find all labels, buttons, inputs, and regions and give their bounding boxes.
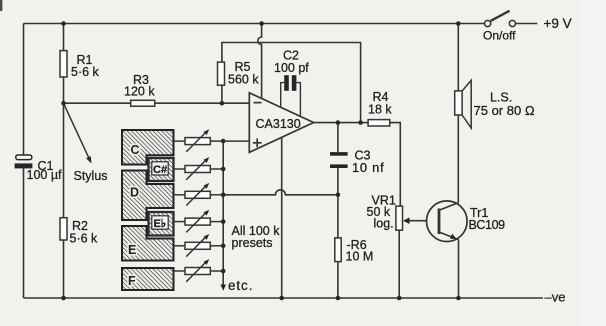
svg-text:75 or 80 Ω: 75 or 80 Ω [474,103,535,118]
stylus arrow [64,103,108,183]
wire emitter to bottom rail [458,240,460,298]
node C3 R6 bus junction [336,193,341,198]
svg-text:560 k: 560 k [228,72,259,86]
wire R1 bottom lead to node [63,77,65,103]
switch on/off [483,11,516,43]
svg-text:100 pf: 100 pf [274,61,309,75]
capacitor C1 [15,155,62,182]
svg-text:5·6 k: 5·6 k [71,65,100,79]
svg-text:E: E [128,243,136,257]
wire bottom negative rail [24,297,544,299]
wire preset bus to R6 junction with hop over V- line [223,190,338,195]
wire VR1 wiper to transistor base [408,220,440,222]
wire output line to R4 [314,122,369,124]
node output feedback junction [358,120,363,125]
wire R6 bottom lead [337,262,339,298]
svg-text:presets: presets [232,236,273,250]
svg-text:etc.: etc. [228,278,253,293]
svg-text:5·6 k: 5·6 k [70,231,99,245]
key C# [149,158,174,181]
wire R5 bottom lead [221,85,223,103]
svg-text:10 nf: 10 nf [352,160,384,175]
wire C3 top lead [337,123,339,153]
op-amp U1 CA3130 [249,93,313,153]
resistor R4 [368,90,392,126]
svg-text:100 µf: 100 µf [27,168,63,182]
transistor Q1 Tr1 BC109 [427,201,506,242]
preset P3 (D) [174,183,224,206]
node output C3 junction [336,120,341,125]
svg-text:Stylus: Stylus [74,169,108,183]
svg-text:C: C [131,143,140,157]
svg-text:log.: log. [374,217,394,231]
wire switch to +9V terminal [516,23,538,25]
svg-text:E♭: E♭ [154,218,167,230]
node +9V terminal label [544,16,572,31]
wire left rail upper (top rail to C1) [23,24,25,156]
key C [122,130,174,165]
resistor R3 [124,73,155,106]
key E [122,226,174,261]
wire collector rail (top rail through speaker to transistor) [457,24,459,203]
capacitor C3 [330,148,384,175]
svg-text:CA3130: CA3130 [256,117,301,131]
svg-text:D: D [130,186,139,200]
svg-text:F: F [128,274,136,288]
wire R5 top lead and feedback line down to output [222,43,361,123]
resistor R5 [218,60,260,86]
preset P4 (Eb) [174,210,224,233]
wire bus arrow etc. [220,224,280,293]
wire inverting input line (node through R3 to op-amp) [64,102,250,104]
node bottom rail junctions [61,296,461,301]
wire R4 right lead down to VR1 [390,123,401,207]
capacitor C2 [274,49,309,117]
svg-text:120 k: 120 k [124,84,155,98]
resistor R1 [60,51,100,79]
wire node to R2 and R2 bottom lead [63,103,65,298]
preset P6 (F) [174,259,224,282]
wire C3 bottom lead to junction [337,168,339,195]
node R5 / R3 junction [220,101,225,106]
svg-text:–ve: –ve [545,289,566,304]
wire op-amp V- to bottom rail [281,137,283,298]
key Eb [149,212,174,236]
svg-text:On/off: On/off [483,29,516,43]
wire op-amp V+ supply with hop over feedback [258,24,262,99]
resistor R6 [335,238,373,264]
node top rail R1 junction [61,21,66,26]
preset P5 (E) [174,234,224,257]
svg-text:BC109: BC109 [469,218,506,232]
loudspeaker LS [455,80,535,128]
node stylus junction [61,101,66,106]
node top rail speaker junction [456,21,461,26]
wire plus input [223,140,249,142]
wire VR1 bottom lead [398,230,400,298]
node top rail op-amp supply junction [259,21,264,26]
wire R1 top lead [63,24,65,51]
svg-text:10 M: 10 M [346,250,374,264]
preset P2 (C#) [174,157,224,180]
potentiometer VR1 [367,193,410,230]
wire left rail lower (C1 to bottom rail) [23,168,25,298]
key D [122,171,174,221]
node -ve rail label [545,289,566,304]
svg-text:+9 V: +9 V [544,16,572,31]
preset P1 (C) [174,129,224,152]
wire preset bus vertical [222,141,224,286]
resistor R2 [60,218,98,246]
svg-text:C#: C# [153,164,167,176]
node preset bus junctions [221,139,226,274]
scan artifact top-left [0,0,2,11]
wire top supply rail [24,23,485,25]
svg-text:18 k: 18 k [368,103,392,117]
wire R6 top lead [337,195,339,238]
key F [122,268,174,290]
